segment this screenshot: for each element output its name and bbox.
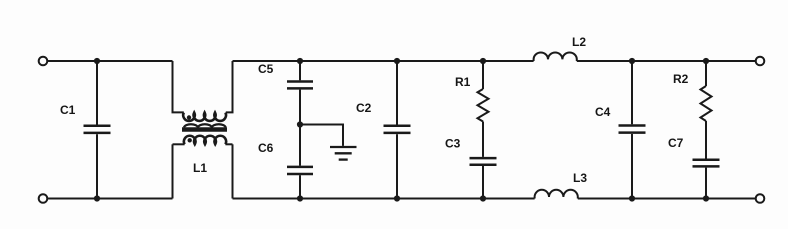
svg-text:C6: C6 [258, 141, 274, 155]
svg-text:R2: R2 [673, 72, 689, 86]
svg-text:L2: L2 [572, 35, 586, 49]
svg-text:L3: L3 [573, 171, 587, 185]
svg-text:R1: R1 [455, 75, 471, 89]
svg-text:C5: C5 [258, 62, 274, 76]
svg-text:C1: C1 [60, 103, 76, 117]
svg-text:L1: L1 [193, 161, 207, 175]
svg-text:C7: C7 [668, 136, 684, 150]
svg-text:C3: C3 [445, 137, 461, 151]
svg-text:C2: C2 [356, 101, 372, 115]
svg-text:C4: C4 [595, 105, 611, 119]
